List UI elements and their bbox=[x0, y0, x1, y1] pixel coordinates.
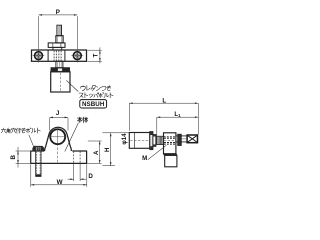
top view: boss right edge bbox=[64, 50, 66, 61]
dimension H bbox=[102, 132, 129, 134]
side view: bracket boss (side profile) bbox=[164, 133, 176, 154]
svg-text:φ14: φ14 bbox=[121, 133, 128, 145]
top view: stopper bolt threaded tip bbox=[57, 25, 62, 36]
side view: cap flange bbox=[150, 132, 153, 150]
svg-text:L1: L1 bbox=[174, 112, 181, 118]
side view: socket end (X marked) bbox=[187, 135, 197, 143]
svg-text:B: B bbox=[10, 154, 17, 159]
side view: urethane cap (φ14 cylinder) bbox=[129, 133, 150, 149]
label: 六角穴付きボルト bbox=[1, 128, 5, 133]
top view: left mounting hole (counterbore + socket head) bbox=[38, 49, 40, 63]
front view: hex socket bolt head bbox=[33, 146, 44, 151]
side view: plate cross-section below bbox=[165, 155, 177, 166]
label: 本体 bbox=[77, 117, 82, 122]
top view: collar bbox=[53, 47, 62, 50]
top view: urethane cap flange (dark) bbox=[51, 68, 70, 72]
svg-text:L: L bbox=[162, 98, 166, 105]
dimension A bbox=[88, 140, 102, 142]
front view: bolt shank with threads bbox=[36, 151, 41, 176]
label: NSBUH boxed bbox=[80, 100, 107, 108]
svg-text:P: P bbox=[56, 9, 60, 16]
side view: threaded rod bbox=[156, 136, 164, 144]
dimension T bbox=[88, 49, 102, 51]
dimension D bbox=[73, 164, 75, 182]
svg-text:T: T bbox=[93, 53, 100, 57]
leader: 本体 bbox=[65, 123, 79, 152]
side view: hidden tapped bore (dashed) bbox=[164, 135, 176, 137]
side view: jam nut bbox=[153, 135, 156, 147]
svg-text:A: A bbox=[93, 150, 100, 155]
top view: stopper bolt shank bbox=[56, 36, 63, 43]
dimension J bbox=[49, 118, 51, 131]
top view: hidden tapped hole (dashed) bbox=[53, 51, 55, 61]
top view: bracket bar bbox=[32, 50, 87, 61]
front view: saddle hump bbox=[45, 127, 72, 151]
label: ウレタンつき bbox=[81, 86, 85, 91]
label: ストッパボルト bbox=[79, 93, 83, 97]
top view: thread neck below bar bbox=[56, 61, 63, 67]
svg-text:J: J bbox=[56, 110, 60, 117]
top view: urethane cap body bbox=[51, 72, 70, 92]
dimension L bbox=[128, 103, 130, 131]
leader: M bbox=[148, 145, 167, 159]
svg-text:W: W bbox=[57, 179, 63, 186]
leader: urethane stopper bolt label bbox=[66, 80, 78, 91]
dimension B bbox=[16, 150, 30, 152]
svg-text:D: D bbox=[88, 173, 93, 180]
leader: 六角穴付きボルト bbox=[29, 135, 35, 150]
front view: bore circle bbox=[50, 129, 65, 144]
front view: bore centerlines bbox=[49, 136, 67, 138]
top view: boss left edge bbox=[47, 50, 49, 61]
side view: washer right of boss bbox=[176, 135, 178, 137]
svg-text:H: H bbox=[104, 147, 111, 152]
svg-text:NSBUH: NSBUH bbox=[82, 101, 105, 108]
side view: boss base thick edge bbox=[164, 154, 177, 156]
top view: right mounting hole (counterbore + socket head) bbox=[76, 49, 78, 63]
dimension W bbox=[30, 164, 32, 187]
top view: jam nut bbox=[48, 43, 65, 48]
front view: bracket plate bbox=[31, 151, 87, 163]
side view: adjusting shaft bbox=[181, 135, 187, 137]
front view: hidden mounting hole (dashed) bbox=[73, 151, 75, 163]
dimension P bbox=[38, 16, 40, 49]
dimension L1 bbox=[156, 117, 158, 136]
svg-text:M: M bbox=[142, 155, 147, 162]
